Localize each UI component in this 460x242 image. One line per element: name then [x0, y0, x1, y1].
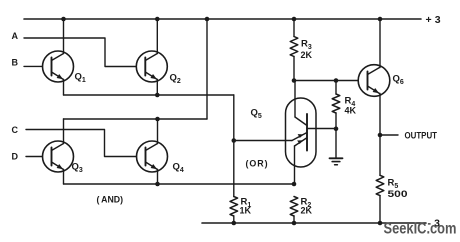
svg-text:D: D — [12, 152, 19, 162]
wire: Q4 emitter down — [157, 170, 159, 185]
wire: -3 supply rail — [202, 222, 426, 224]
transistor Q1 — [43, 51, 74, 82]
resistor R2 — [290, 197, 298, 217]
wire: Q3 emitter down — [63, 170, 65, 185]
node: R2 at rail — [292, 221, 297, 226]
wire: R4 to ground node — [335, 113, 337, 129]
wire: Q1 emitter down — [63, 80, 65, 96]
wire: node to Q6 base — [294, 80, 358, 82]
svg-text:2K: 2K — [301, 206, 313, 216]
wire: R1 to -3 rail — [233, 216, 235, 223]
wire: rail to R3 — [293, 19, 295, 37]
svg-text:Q5: Q5 — [251, 108, 262, 121]
wire: R2 to -3 rail — [293, 216, 295, 223]
wire: Q4 collector up — [157, 119, 159, 144]
wire: Q1/Q2 emitter bus — [64, 94, 234, 96]
svg-text:( AND): ( AND) — [97, 195, 124, 206]
svg-text:(OR): (OR) — [246, 159, 269, 170]
node: R3 at rail — [292, 17, 297, 22]
ground — [330, 129, 343, 165]
svg-text:B: B — [12, 58, 19, 68]
resistor R4 — [332, 94, 340, 113]
svg-text:Q4: Q4 — [173, 162, 184, 175]
wire: +3 supply rail — [24, 18, 421, 20]
wire: Q6 collector to rail — [379, 19, 381, 68]
wire: AND1 node down to R1 — [233, 95, 235, 197]
node: Q5 base junction — [232, 138, 237, 143]
node: output junction — [378, 133, 383, 138]
svg-text:500: 500 — [388, 189, 408, 199]
node: Q5 collector / Q6 base — [292, 78, 297, 83]
wire: Q3/Q4 emitter bus — [64, 183, 295, 185]
node: R4 top junction — [334, 78, 339, 83]
wire: Q5 emitter-2 down — [294, 146, 296, 184]
node: R1 at rail — [232, 221, 237, 226]
wire: input D to Q3 base — [26, 156, 43, 158]
node: Q4 collector junction — [155, 117, 160, 122]
svg-text:Q1: Q1 — [75, 72, 86, 85]
resistor R5 — [376, 175, 384, 195]
transistor Q6 — [358, 65, 390, 97]
svg-text:SeekIC.com: SeekIC.com — [384, 221, 457, 238]
svg-text:4K: 4K — [345, 106, 357, 116]
wire: Q2 collector to rail — [156, 19, 158, 54]
resistor R3 — [290, 37, 298, 57]
node: Q4 emitter junction — [155, 182, 160, 187]
wire: R5 to -3 rail — [379, 196, 381, 223]
wire: input A to Q2 base — [24, 38, 136, 67]
node: Q2 emitter junction — [155, 93, 160, 98]
wire: node to R4 — [335, 81, 337, 95]
wire: R3 to Q5 collector node — [293, 57, 295, 81]
resistor R1 — [230, 197, 238, 217]
node: Q1 collector at rail — [61, 17, 66, 22]
node: crossover feed at rail — [205, 17, 210, 22]
wire: input B to Q1 base — [24, 65, 43, 67]
svg-text:1K: 1K — [240, 206, 252, 216]
node: Q5 emitter / R2 junction — [292, 182, 297, 187]
svg-text:+ 3: + 3 — [426, 14, 442, 26]
svg-text:A: A — [12, 31, 19, 41]
node: Q6 collector at rail — [378, 17, 383, 22]
wire: Q3 collector up — [63, 119, 65, 144]
node: R4 / Q5 base / ground — [334, 127, 339, 132]
transistor Q5 — [286, 81, 337, 168]
wire: Q1 collector to rail — [63, 19, 65, 54]
wire: rail feed vertical — [206, 19, 208, 119]
node: R5 at rail — [378, 221, 383, 226]
svg-text:C: C — [12, 125, 19, 135]
transistor Q2 — [136, 51, 167, 82]
wire: Q6 emitter down to output node — [379, 94, 381, 136]
wire: output node to R5 — [379, 135, 381, 175]
svg-text:Q3: Q3 — [72, 162, 83, 175]
svg-text:Q2: Q2 — [170, 73, 181, 86]
wire: Q5 emitter-1 lead — [234, 140, 292, 142]
node: Q2 collector at rail — [155, 17, 160, 22]
svg-text:OUTPUT: OUTPUT — [405, 130, 438, 140]
svg-text:Q6: Q6 — [393, 74, 404, 87]
wire: input C to Q4 base — [26, 130, 137, 157]
wire: Q3/Q4 collector bus — [64, 118, 208, 120]
transistor Q4 — [137, 141, 168, 172]
svg-text:2K: 2K — [301, 50, 313, 60]
wire: Q2 emitter down — [156, 80, 158, 96]
transistor Q3 — [43, 141, 74, 172]
wire: output stub — [380, 134, 398, 136]
